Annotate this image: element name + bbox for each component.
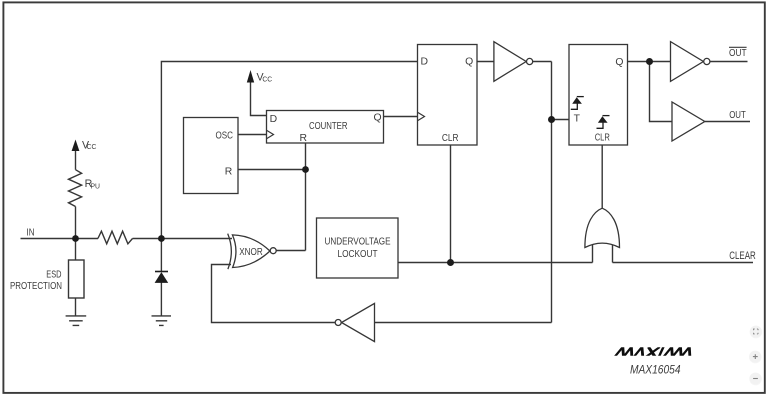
svg-text:OUT: OUT [729, 110, 746, 121]
svg-text:COUNTER: COUNTER [309, 121, 348, 132]
svg-text:CLEAR: CLEAR [729, 250, 756, 262]
svg-text:CC: CC [87, 142, 97, 151]
svg-text:CLR: CLR [442, 133, 459, 144]
svg-text:LOCKOUT: LOCKOUT [338, 249, 379, 260]
svg-text:OSC: OSC [216, 130, 234, 141]
svg-text:PROTECTION: PROTECTION [10, 281, 62, 292]
svg-text:MAX16054: MAX16054 [630, 363, 681, 377]
svg-text:Q: Q [615, 57, 623, 68]
svg-text:UNDERVOLTAGE: UNDERVOLTAGE [325, 236, 391, 247]
svg-text:D: D [421, 57, 429, 68]
svg-text:PU: PU [91, 181, 101, 190]
svg-text:T: T [574, 114, 581, 125]
svg-text:IN: IN [27, 227, 35, 238]
svg-text:Q: Q [374, 113, 382, 124]
svg-text:CLR: CLR [595, 133, 611, 144]
svg-text:Q: Q [465, 57, 473, 68]
svg-text:XNOR: XNOR [239, 247, 263, 258]
svg-text:OUT: OUT [729, 48, 747, 59]
svg-text:CC: CC [262, 74, 272, 83]
svg-text:R: R [225, 166, 233, 177]
svg-text:ESD: ESD [46, 270, 61, 281]
svg-text:D: D [270, 114, 278, 125]
svg-text:R: R [299, 133, 307, 144]
